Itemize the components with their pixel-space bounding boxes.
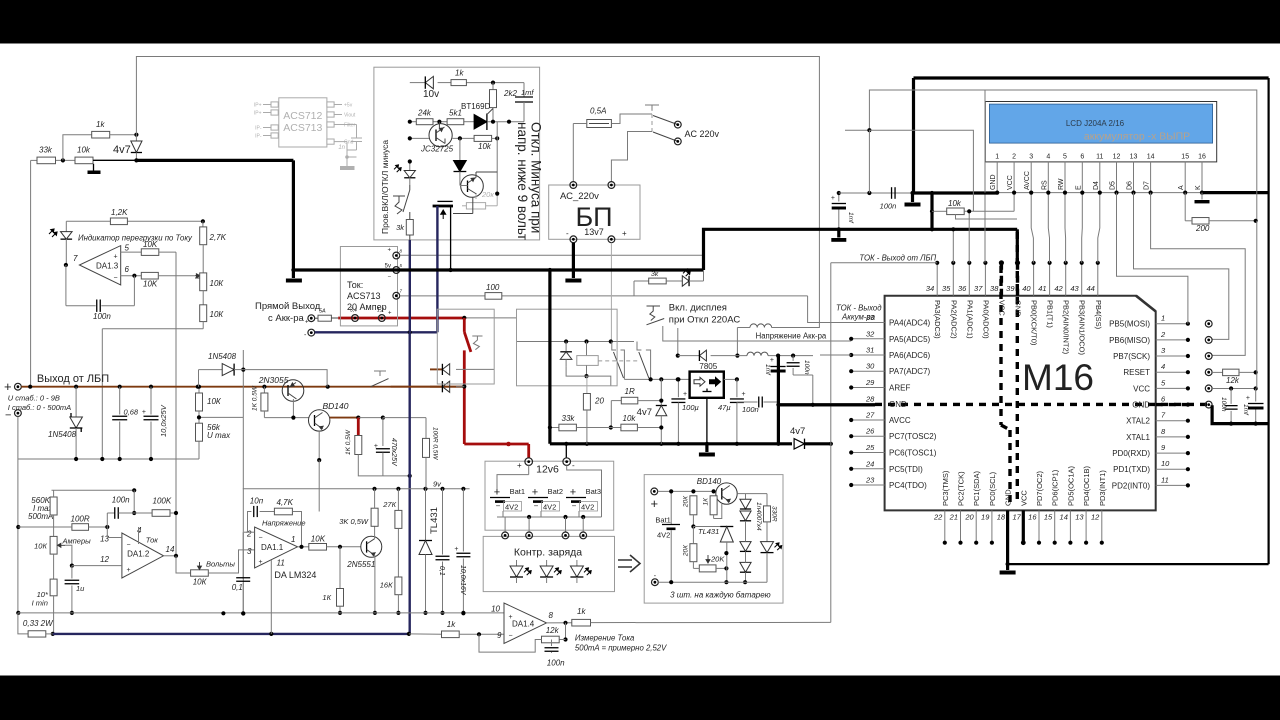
svg-text:M16: M16 [1022, 357, 1094, 398]
IC M16 ATmega16 [885, 296, 1156, 511]
potentiometer 20K module [692, 562, 694, 569]
svg-text:PD1(TXD): PD1(TXD) [1113, 465, 1150, 474]
thick ground wire from 4v7 node [93, 159, 136, 161]
svg-text:10k: 10k [77, 146, 91, 155]
resistor 10k mid [621, 424, 638, 431]
terminal ACS713 pin8 [393, 252, 400, 259]
potentiometer 10K Ampery [53, 515, 55, 536]
svg-text:Амперы: Амперы [62, 537, 92, 546]
resistor 10* I min [53, 554, 55, 579]
thick rail y=443.8 [550, 442, 794, 445]
svg-text:34: 34 [926, 284, 934, 293]
svg-text:PB6(MISO): PB6(MISO) [1109, 336, 1150, 345]
svg-text:1R: 1R [625, 387, 635, 396]
M16 pin 11 PD2(INT0) [1156, 484, 1188, 486]
terminal PSU AC in 2 [608, 182, 615, 189]
svg-text:Bat3: Bat3 [586, 487, 601, 496]
wire 7805 out [724, 378, 737, 380]
svg-text:BT169D: BT169D [461, 102, 491, 111]
svg-text:13: 13 [1130, 154, 1138, 161]
svg-text:Bat1: Bat1 [655, 516, 670, 525]
resistor 1K module [710, 496, 717, 515]
svg-text:PC3(TMS): PC3(TMS) [941, 470, 950, 506]
brown after switch [391, 386, 465, 388]
svg-text:1mf: 1mf [764, 364, 771, 376]
svg-text:3K 0,5W: 3K 0,5W [339, 517, 369, 526]
svg-text:AREF: AREF [889, 384, 910, 393]
resistor 4,7K [260, 511, 275, 513]
diode relay flyback [565, 342, 567, 352]
resistor 10K out [309, 544, 327, 551]
svg-text:33k: 33k [39, 146, 53, 155]
wire pin36 to 10k wire [968, 211, 970, 262]
svg-text:+: + [127, 567, 131, 574]
svg-text:13: 13 [1075, 513, 1084, 522]
svg-text:-: - [566, 229, 569, 238]
M16 pin 17 VCC [1022, 510, 1025, 542]
wire feedback column x=176 [175, 252, 177, 556]
svg-text:4: 4 [1046, 154, 1050, 161]
svg-text:VCC: VCC [997, 300, 1006, 316]
svg-text:10К: 10К [207, 397, 222, 406]
svg-text:RS: RS [1041, 180, 1048, 190]
transistor 2N5551 [361, 536, 382, 557]
terminal ISP RESET [1205, 369, 1212, 376]
M16 pin 8 XTAL1 [1156, 436, 1188, 438]
op-amp DA1.3 [64, 263, 68, 267]
svg-text:−: − [509, 633, 513, 640]
resistor 16K [395, 577, 402, 595]
M16 pin 44 PB4(SS) [1097, 263, 1099, 296]
svg-text:напр. ниже 9 вольт: напр. ниже 9 вольт [515, 122, 530, 240]
resistor 1K 0,5W red branch [357, 418, 360, 436]
svg-text:27К: 27К [382, 500, 396, 509]
wire to resistor 1k [63, 135, 92, 161]
resistor 100K DA1.2 feedback [152, 510, 170, 517]
M16 pin 14 PD5(OC1A) [1069, 510, 1071, 542]
M16 pin 35 PA2(ADC2) [952, 263, 954, 296]
svg-text:20: 20 [964, 513, 974, 522]
resistor 100R [72, 524, 89, 531]
resistor 10k LCD [932, 210, 947, 212]
ground LCD backlight [1201, 193, 1203, 200]
wire fuse left to PSU [573, 123, 587, 125]
capacitor 10,0x25V [150, 387, 152, 415]
diode chain 1n4007x4 [745, 494, 747, 500]
svg-text:U стаб.: 0 - 9В: U стаб.: 0 - 9В [8, 394, 60, 403]
svg-text:A: A [1178, 185, 1185, 190]
wire LCD common row y=192.6 [839, 192, 913, 194]
navy vertical from 3k to minus bus [409, 240, 411, 332]
node junction 33k/10k [61, 158, 65, 162]
svg-text:DA1.1: DA1.1 [261, 543, 284, 552]
M16 pin 25 PC6(TOSC1) [851, 452, 884, 454]
M16 pin 42 PB2(AIN0/INT2) [1065, 263, 1067, 296]
svg-text:11: 11 [1161, 475, 1169, 484]
svg-text:18: 18 [997, 513, 1006, 522]
capacitor 10,0x16V [462, 489, 464, 552]
wire 5v rail thick to M16 GND row [778, 403, 875, 406]
resistor 2,7K [202, 221, 204, 227]
op-amp DA1.1 [255, 527, 298, 568]
svg-text:I стаб.: 0 - 500mA: I стаб.: 0 - 500mA [8, 403, 71, 412]
svg-text:10К: 10К [210, 279, 225, 288]
svg-text:10К: 10К [210, 310, 225, 319]
svg-text:1: 1 [995, 154, 999, 161]
capacitor 10n [253, 506, 255, 517]
mosfet switch minus [437, 200, 452, 202]
svg-text:ACS713: ACS713 [283, 122, 322, 134]
svg-text:Ток:: Ток: [347, 280, 363, 290]
svg-text:100R 0,5W: 100R 0,5W [432, 427, 439, 460]
wire JC32725 collector/base [438, 122, 440, 130]
resistor 1K down [339, 547, 341, 589]
wire to Volty pot [176, 556, 191, 573]
switch actuator [472, 336, 482, 350]
navy wire battery minus [315, 331, 438, 333]
svg-text:+5v: +5v [344, 103, 353, 109]
svg-text:+: + [494, 487, 500, 499]
svg-text:XTAL1: XTAL1 [1126, 433, 1150, 442]
ground near LCD [911, 193, 914, 202]
LED module [766, 522, 768, 542]
battery symbol module [670, 491, 672, 524]
wire pin32 battery voltage [663, 326, 851, 341]
svg-text:1: 1 [291, 535, 295, 544]
svg-text:4V2: 4V2 [581, 503, 594, 512]
svg-text:42: 42 [1054, 284, 1063, 293]
inductor 2 [747, 352, 768, 355]
red wire battery plus [331, 317, 338, 319]
svg-text:11: 11 [277, 559, 285, 568]
terminal battery plus [525, 458, 533, 466]
M16 pin 23 PC4(TDO) [851, 484, 884, 486]
svg-text:1N5408: 1N5408 [208, 352, 237, 361]
resistor 1k output [572, 619, 591, 626]
svg-text:4v7: 4v7 [637, 407, 652, 418]
svg-text:GND: GND [1004, 489, 1013, 506]
svg-text:2N5551: 2N5551 [346, 560, 375, 569]
resistor 2k2 [492, 83, 494, 90]
svg-text:16: 16 [1198, 154, 1206, 161]
svg-text:10v: 10v [423, 89, 439, 100]
ground 7805 [705, 444, 708, 452]
svg-text:D5: D5 [1110, 181, 1117, 190]
wire BD140 collector down [318, 431, 320, 460]
svg-text:Контр. заряда: Контр. заряда [514, 547, 582, 559]
svg-text:15: 15 [1181, 154, 1189, 161]
svg-text:TL431: TL431 [429, 507, 440, 534]
wire 100R row [18, 526, 28, 528]
terminal ctrl 1 [502, 532, 509, 539]
svg-text:ACS713: ACS713 [347, 291, 381, 301]
resistor 1k pin9 [442, 631, 460, 638]
svg-text:GND: GND [990, 174, 997, 190]
resistor 33k [37, 157, 56, 164]
svg-text:10k: 10k [948, 199, 962, 208]
resistor 20k grey otkl [466, 203, 485, 209]
terminal ISP PB5(MOSI) [1205, 320, 1212, 327]
terminal ctrl 3 [562, 532, 569, 539]
thyristor BT169D [474, 115, 487, 130]
ACS712 pin Gnd [327, 141, 342, 143]
svg-text:Bat1: Bat1 [510, 487, 525, 496]
svg-text:24k: 24k [417, 109, 432, 118]
svg-text:Вольты: Вольты [206, 560, 235, 569]
DA1.2 pin4 stub [138, 527, 140, 544]
wire LCD D4 to pin44 [1098, 193, 1100, 263]
svg-text:3: 3 [247, 547, 252, 556]
svg-text:PC7(TOSC2): PC7(TOSC2) [889, 432, 937, 441]
potentiometer 10K Volty [191, 570, 209, 576]
svg-text:Ток: Ток [146, 536, 159, 545]
svg-text:500mA: 500mA [28, 512, 53, 521]
svg-text:PB3(AIN1/OCO): PB3(AIN1/OCO) [1078, 300, 1087, 356]
thick wire PSU minus to main ground rail [572, 243, 575, 270]
wire mid rail otkl [410, 121, 417, 123]
wire LCD pin 5 [1064, 168, 1066, 193]
ACS712 pin +5v [327, 104, 342, 106]
M16 pin 5 VCC [1156, 387, 1188, 389]
svg-text:100n: 100n [93, 312, 111, 321]
svg-text:+: + [509, 614, 513, 621]
M16 pin 22 PC3(TMS) [944, 510, 946, 542]
svg-text:PC1(SDA): PC1(SDA) [972, 470, 981, 506]
svg-text:19: 19 [981, 513, 990, 522]
M16 pin 27 AVCC [851, 419, 884, 421]
svg-text:10k: 10k [623, 414, 637, 423]
op-amp DA1.4 [504, 603, 547, 644]
wire LCD pin 15 [1184, 168, 1186, 193]
svg-text:−: − [572, 502, 577, 511]
svg-text:32: 32 [866, 329, 875, 338]
svg-text:IP-: IP- [255, 126, 262, 132]
svg-text:9: 9 [497, 631, 502, 640]
terminal ISP PB6(MISO) [1205, 337, 1212, 344]
svg-text:0,1: 0,1 [232, 583, 243, 592]
M16 pin 39 GND [1016, 263, 1019, 296]
svg-text:Выход от ЛБП: Выход от ЛБП [37, 373, 109, 385]
thick rail up and right to LCD area [704, 229, 1018, 270]
svg-text:+: + [1246, 395, 1250, 402]
wire diode-inductor rail y=355.6 [678, 355, 700, 357]
thick frame top [914, 76, 1269, 79]
wire switch down to diode rail [677, 328, 679, 356]
terminal ACS713 pin5 [393, 267, 400, 274]
LED charge 1 [516, 560, 518, 566]
svg-text:1n: 1n [338, 145, 345, 151]
svg-text:1N5408: 1N5408 [48, 430, 77, 439]
capacitor 100n DA1.2 feedback [133, 490, 135, 513]
M16 pin 43 PB3(AIN1/OCO) [1081, 263, 1083, 296]
resistor 200 [1184, 193, 1186, 221]
resistor 20 [586, 376, 588, 393]
svg-text:3k: 3k [396, 223, 405, 232]
svg-text:с Акк-ра: с Акк-ра [268, 313, 304, 324]
svg-text:VCC: VCC [1133, 384, 1150, 393]
ground under 1mf rail [837, 229, 840, 237]
diode 4v7 on rail [792, 438, 808, 451]
svg-text:XTAL2: XTAL2 [1126, 417, 1150, 426]
svg-text:DA1.3: DA1.3 [96, 262, 119, 271]
wire 560K top [53, 490, 55, 497]
svg-text:PD4(OC1B): PD4(OC1B) [1082, 465, 1091, 506]
wire left column x=243 [242, 532, 244, 576]
svg-text:+: + [622, 229, 627, 238]
svg-text:PA0(ADC0): PA0(ADC0) [981, 300, 990, 339]
brown wire BD140 out [330, 417, 359, 419]
ACS712 pin 2 IP+ [263, 112, 279, 114]
op-amp DA1.2 [122, 533, 164, 578]
main thick ground horizontal y=270 [293, 268, 703, 271]
svg-text:GND: GND [1014, 300, 1023, 317]
svg-text:АС_220v: АС_220v [560, 191, 599, 202]
wire chain bottom to x=102 column [202, 322, 204, 329]
svg-text:+: + [683, 391, 687, 398]
resistor 560K [50, 497, 57, 515]
terminal ISP GND [1205, 401, 1212, 408]
svg-text:при Откл 220АС: при Откл 220АС [669, 315, 741, 326]
resistor 100 [485, 293, 502, 300]
svg-text:D6: D6 [1127, 181, 1134, 190]
black wire mosfet drain down [450, 206, 452, 270]
svg-text:Gnd: Gnd [344, 140, 354, 146]
svg-text:K: K [1195, 185, 1202, 190]
ground M16 bottom [1006, 564, 1009, 570]
svg-text:330R: 330R [771, 506, 778, 522]
M16 pin 20 PC1(SDA) [975, 510, 977, 542]
svg-text:6: 6 [1080, 154, 1084, 161]
svg-text:16: 16 [1028, 513, 1037, 522]
svg-text:4V2: 4V2 [505, 503, 518, 512]
svg-text:5A: 5A [319, 309, 326, 315]
svg-text:100: 100 [486, 283, 500, 292]
resistor 1K 0,5W base [263, 387, 265, 393]
svg-text:+: + [570, 487, 576, 499]
resistor 1k [92, 131, 110, 138]
M16 pin 34 PA3(ADC3) [936, 263, 938, 296]
svg-text:30: 30 [866, 362, 875, 371]
svg-text:+: + [305, 320, 309, 326]
svg-text:22: 22 [933, 513, 943, 522]
svg-text:U max: U max [207, 431, 231, 440]
wire DA1.4 output [547, 622, 572, 624]
capacitor 100n vcc [1230, 389, 1232, 404]
diode 1N5408 shunt [75, 387, 77, 417]
svg-text:0,33 2W: 0,33 2W [23, 619, 54, 628]
wire 5v sense from pin8 [400, 254, 704, 256]
capacitor 100n DA1.4 [551, 640, 553, 647]
svg-text:1n4007х4: 1n4007х4 [755, 502, 762, 531]
svg-text:2N3055: 2N3055 [258, 375, 289, 385]
wire DA1.2 output [164, 555, 177, 557]
capacitor 1mf battery rail [777, 356, 779, 365]
svg-text:4: 4 [1161, 362, 1165, 371]
svg-text:PD3(INT1): PD3(INT1) [1098, 470, 1107, 506]
M16 pin 13 PD4(OC1B) [1085, 510, 1087, 542]
svg-text:DA1.4: DA1.4 [512, 620, 535, 629]
M16 pin 26 PC7(TOSC2) [851, 435, 884, 437]
navy bottom bus [53, 633, 410, 635]
svg-text:37: 37 [974, 284, 983, 293]
svg-text:1mf: 1mf [521, 88, 534, 97]
M16 pin 41 PB1(T1) [1049, 263, 1051, 296]
wire LCD pin 12 [1116, 168, 1118, 193]
svg-text:Аккум-ра: Аккум-ра [841, 313, 876, 322]
wire minus terminal down [17, 417, 19, 613]
svg-text:DA LM324: DA LM324 [274, 570, 316, 580]
wire x=985 long [984, 90, 986, 193]
zener diode 10v [425, 76, 433, 88]
capacitor 1mf otkl [523, 83, 525, 97]
wire D5 to PB5 [1117, 193, 1188, 324]
navy long vertical [409, 332, 411, 634]
svg-text:12: 12 [1113, 154, 1121, 161]
resistor 33k mid [550, 427, 559, 429]
resistor 1,2K [110, 218, 127, 225]
svg-text:2,7K: 2,7K [209, 233, 227, 242]
M16 pin 16 PD7(OC2) [1038, 510, 1040, 542]
wire 200 to frame [1256, 221, 1258, 373]
svg-text:0,1: 0,1 [438, 566, 445, 576]
M16 pin 7 XTAL2 [1156, 420, 1188, 422]
wire DA1.2 pin13 [106, 527, 108, 538]
svg-text:36: 36 [958, 284, 967, 293]
wire LCD AVCC to pin40 [1031, 193, 1033, 263]
svg-text:7: 7 [73, 254, 78, 263]
wire LCD VCC down [1013, 193, 1015, 212]
wire LCD pin 2 [1013, 168, 1015, 193]
svg-text:PC2(TCK): PC2(TCK) [957, 471, 966, 506]
resistor 10k [75, 157, 93, 164]
svg-text:10K: 10K [143, 280, 158, 289]
svg-text:PB1(T1): PB1(T1) [1046, 300, 1055, 328]
svg-text:+: + [259, 559, 263, 566]
svg-text:PC6(TOSC1): PC6(TOSC1) [889, 449, 937, 458]
svg-text:TL431: TL431 [698, 527, 719, 536]
thick branch x=932 [930, 193, 933, 229]
resistor 3K 0,5W [371, 508, 378, 526]
red switch battery [462, 316, 466, 320]
potentiometer 10K [202, 245, 204, 273]
svg-text:RW: RW [1058, 178, 1065, 190]
resistor 1k otkl [451, 80, 466, 86]
capacitor 0,68 [119, 387, 121, 415]
svg-text:10К: 10К [34, 542, 47, 551]
svg-text:PA2(ADC2): PA2(ADC2) [949, 300, 958, 339]
svg-text:500mA = примерно 2,52V: 500mA = примерно 2,52V [575, 644, 667, 653]
svg-text:IP+: IP+ [254, 103, 262, 109]
svg-text:4V2: 4V2 [657, 531, 670, 540]
thick vertical x=778.4 [777, 356, 780, 444]
svg-text:0,5A: 0,5A [590, 107, 606, 116]
wire bottom gnd to right frame [1008, 563, 1269, 565]
TL431 regulator [425, 489, 427, 541]
wire fuse right to switch [611, 114, 652, 124]
svg-text:100µ: 100µ [682, 403, 699, 412]
capacitor 470x25V [382, 418, 384, 446]
svg-text:5: 5 [125, 244, 130, 253]
svg-text:200: 200 [1195, 224, 1210, 233]
svg-text:38: 38 [990, 284, 999, 293]
svg-text:100n: 100n [880, 202, 897, 211]
M16 pin 9 PD0(RXD) [1156, 452, 1188, 454]
thin frame wire y=90 [869, 90, 1256, 221]
svg-text:4V2: 4V2 [543, 503, 556, 512]
svg-text:100n: 100n [742, 405, 759, 414]
svg-text:Измерение Тока: Измерение Тока [575, 634, 635, 643]
wire pin37 long [984, 193, 986, 263]
